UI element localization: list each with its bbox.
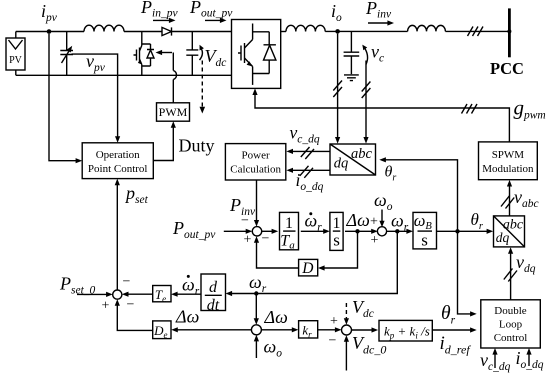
- wire v_c_dq from abc/dq to Power Calculation: [286, 147, 330, 159]
- svg-text:dt: dt: [207, 297, 220, 314]
- svg-text:Δω: Δω: [264, 307, 288, 327]
- wire i_o_dq from abc/dq to Power Calculation: [286, 166, 330, 178]
- wire PI to Double Loop Control i_d_ref: [433, 327, 477, 332]
- svg-text:Calculation: Calculation: [230, 164, 281, 176]
- svg-text:Δω: Δω: [175, 306, 199, 326]
- node theta_r branch: [455, 229, 459, 233]
- svg-text:−: −: [241, 214, 249, 229]
- svg-text:PWM: PWM: [159, 105, 188, 119]
- svg-text:1: 1: [333, 215, 341, 232]
- svg-text:SPWM: SPWM: [492, 149, 525, 161]
- wire S3 to D_e: [171, 327, 251, 332]
- node at PCC: [507, 29, 511, 33]
- three-phase slashes on grid wire: [468, 27, 484, 37]
- wire P_inv arrow: [368, 20, 394, 25]
- svg-text:d: d: [209, 279, 218, 296]
- block PI k_p+k_i/s: [379, 320, 432, 341]
- block Double Loop Control: [481, 300, 541, 348]
- svg-text:1: 1: [285, 215, 293, 232]
- diode D1 boost: [162, 27, 172, 35]
- wire PWM gate drive to Q1: [156, 50, 177, 103]
- inductor L3: [408, 25, 446, 31]
- wire omega_o input to S3: [254, 335, 259, 358]
- node i_o: [335, 29, 340, 34]
- wire g_pwm net from SPWM to inverter: [252, 88, 509, 141]
- label omega_r dot: [182, 275, 200, 298]
- block PWM: [157, 103, 190, 121]
- svg-text:Operation: Operation: [96, 149, 140, 161]
- wire top rail left: [16, 31, 84, 33]
- wire v_dq from Double Loop Control to dq/abc: [504, 247, 517, 300]
- svg-text:s: s: [333, 231, 340, 250]
- wire rail L1 to D1: [124, 31, 162, 33]
- svg-text:Loop: Loop: [499, 319, 523, 331]
- svg-text:Double: Double: [494, 305, 527, 317]
- block dq to abc transform: [494, 216, 525, 247]
- summer S4 V_dc junction: [342, 325, 352, 335]
- wire i_o measurement down to abc/dq: [333, 34, 342, 144]
- wire D to S1: [254, 236, 299, 268]
- svg-text:+: +: [370, 215, 378, 230]
- svg-text:−: −: [123, 275, 131, 290]
- block omega_B/s: [413, 211, 437, 250]
- PV source PV: [6, 38, 25, 70]
- wire omega_r branch down to S3: [254, 294, 259, 325]
- wire v_c measurement down to abc/dq: [362, 61, 371, 144]
- wire PV top lead: [15, 32, 17, 39]
- transistor Q1 boost IGBT: [134, 32, 151, 76]
- summer S1: [252, 227, 261, 236]
- svg-text:+: +: [330, 314, 338, 329]
- wire omega_o into S2: [379, 210, 384, 228]
- wire delta omega to D block: [318, 231, 358, 270]
- svg-text:+: +: [244, 233, 252, 248]
- svg-text:Δω: Δω: [346, 210, 370, 230]
- wire S1 to 1/Ta: [262, 229, 279, 234]
- block 1/s: [330, 212, 343, 250]
- svg-text:dq: dq: [496, 230, 510, 245]
- wire P_inv from Power Calculation to S1: [254, 180, 259, 227]
- node delta omega branch: [355, 229, 359, 233]
- inductor L2: [286, 25, 325, 31]
- wire S4 to PI block: [352, 327, 379, 332]
- block SPWM Modulation: [479, 142, 538, 180]
- wire P_out_pv arrow: [205, 18, 227, 23]
- wire V_dc dashed into S4: [344, 303, 349, 325]
- svg-text:−: −: [262, 232, 270, 247]
- diode D3 inverter antiparallel: [253, 32, 276, 74]
- wire P_in_pv arrow: [153, 18, 176, 23]
- block abc to dq transform: [330, 144, 376, 175]
- wire p_set to Operation Point Control: [115, 179, 120, 290]
- ground: [344, 75, 359, 81]
- wire Operation Point Control to PWM: [153, 121, 176, 160]
- node omega_r branch: [395, 229, 399, 233]
- summer S2 omega junction: [377, 227, 386, 236]
- capacitor C3 filter v_c: [344, 31, 368, 74]
- svg-text:Point Control: Point Control: [88, 163, 148, 175]
- svg-text:abc: abc: [351, 146, 373, 162]
- wire T_e to S5: [122, 292, 153, 297]
- capacitor C2 DC link: [186, 32, 204, 76]
- summer S5 p_set junction: [113, 290, 122, 299]
- wire bottom rail: [16, 70, 232, 75]
- block T_e: [153, 286, 171, 304]
- wire L3 to PCC: [445, 30, 509, 32]
- wire 1/Ta to 1/s: [301, 229, 330, 234]
- wire S3 to k_r: [261, 327, 298, 332]
- block Operation Point Control: [82, 143, 153, 179]
- svg-text:Duty: Duty: [179, 136, 215, 156]
- block 1/Ta: [280, 212, 299, 251]
- svg-text:s: s: [421, 231, 428, 250]
- inverter U1 box: [232, 20, 281, 89]
- capacitor C1 input cap: [60, 32, 73, 76]
- svg-text:dq: dq: [334, 156, 349, 172]
- wire omega_r feedback from node to d/dt: [226, 231, 398, 296]
- node on omega_r wire: [254, 291, 258, 295]
- wire i_pv measurement to Operation Point Control: [49, 34, 82, 164]
- wire theta_r to Double Loop Control: [458, 231, 477, 316]
- wire v_pv measurement to Operation Point Control: [72, 54, 121, 143]
- svg-text:Power: Power: [242, 150, 270, 162]
- svg-text:D: D: [301, 260, 313, 277]
- wire P_set_0 input: [77, 292, 113, 297]
- wire omega_B/s to dq/abc theta_r: [437, 229, 494, 234]
- wire d/dt to T_e: [171, 292, 201, 297]
- block D: [299, 259, 318, 277]
- wire theta_r to abc/dq: [379, 157, 457, 231]
- block D_e: [153, 321, 171, 340]
- svg-text:Control: Control: [494, 332, 528, 344]
- label omega_r dot mid: [305, 210, 323, 233]
- svg-text:PV: PV: [9, 55, 23, 66]
- bus bar PCC: [508, 8, 511, 57]
- svg-text:+: +: [371, 233, 379, 248]
- svg-text:−: −: [329, 334, 337, 349]
- inductor L1 boost: [84, 25, 124, 31]
- block k_r: [299, 321, 318, 340]
- block d/dt: [201, 274, 226, 314]
- node i_pv: [47, 29, 52, 34]
- wire S2 to omega_B/s: [386, 229, 413, 234]
- wire V_dc_0 into S4: [344, 335, 349, 370]
- wire L2 to L3: [325, 30, 407, 32]
- wire k_r to S4: [318, 327, 342, 332]
- wire rail D1 to inverter: [172, 31, 232, 33]
- summer S3 delta omega junction: [251, 325, 261, 335]
- svg-text:PCC: PCC: [490, 59, 524, 78]
- diode D2 antiparallel on Q1: [147, 44, 154, 66]
- wire i_o_dq input to Double Loop Control: [526, 348, 531, 366]
- wire dq/abc to SPWM v_abc: [501, 180, 514, 216]
- svg-text:+: +: [102, 299, 110, 314]
- svg-text:Modulation: Modulation: [482, 163, 534, 175]
- wire D_e to S5: [115, 299, 153, 330]
- wire P_out_pv into S1: [224, 229, 253, 234]
- wire V_dc dashed measurement arrow: [200, 61, 206, 114]
- wire inverter output: [281, 31, 286, 33]
- block Power Calculation: [225, 144, 285, 180]
- wire v_c_dq input to Double Loop Control: [492, 348, 497, 368]
- svg-text:−: −: [127, 298, 135, 313]
- wire 1/s to S2: [345, 229, 378, 234]
- transistor Q2 inverter IGBT: [238, 24, 253, 85]
